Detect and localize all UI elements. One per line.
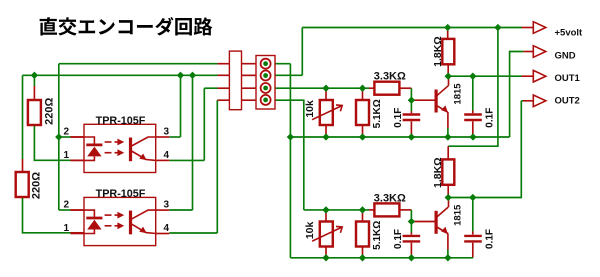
potentiometer 10k circuit2 <box>320 222 333 247</box>
wire 3.3K-1 to base node <box>399 87 411 89</box>
wire +5V vertical jog x=302 <box>301 28 303 76</box>
wire TPR2 pin4 to connector pin4 <box>169 232 217 234</box>
wire C2-1 tap <box>472 76 474 110</box>
svg-text:3: 3 <box>164 200 170 211</box>
wire LED-cathode net top y=63.7 <box>59 63 218 65</box>
wire Q2 emitter to GND rail2 <box>447 233 449 249</box>
wire base2 down to C1-2 <box>410 222 412 233</box>
capacitor 0.1F collector circuit2 <box>464 235 482 237</box>
U2 light arrows <box>105 214 112 216</box>
optocoupler U2 TPR-105F box <box>84 197 156 245</box>
svg-text:10k: 10k <box>304 100 316 118</box>
svg-text:OUT1: OUT1 <box>555 73 581 84</box>
wire +5V top rail <box>302 27 521 29</box>
wire TPR2 pin3 up to +5V net <box>169 209 192 211</box>
power flag +5volt <box>533 22 546 34</box>
svg-text:OUT2: OUT2 <box>555 95 580 106</box>
wire Q1 collector <box>448 76 450 86</box>
wire 1.8K-1 bottom to collector node <box>447 64 449 76</box>
wire 10k-1 stubs <box>325 88 327 100</box>
transistor Q2 1815 <box>435 211 438 234</box>
svg-text:220Ω: 220Ω <box>31 172 43 199</box>
wire +5V bus x=497.9 to 1.8K-2 <box>448 28 498 147</box>
svg-text:0.1F: 0.1F <box>393 229 404 249</box>
svg-text:1.8KΩ: 1.8KΩ <box>432 36 444 67</box>
svg-text:1: 1 <box>63 150 69 161</box>
potentiometer 10k circuit1 <box>320 100 333 125</box>
svg-text:5.1KΩ: 5.1KΩ <box>372 99 383 128</box>
connector pin stubs between header and socket <box>242 63 261 65</box>
svg-text:GND: GND <box>555 50 576 61</box>
svg-text:1815: 1815 <box>452 204 463 226</box>
transistor Q1 1815 <box>435 90 438 113</box>
wire R2 bottom to TPR2 pin1 <box>23 196 71 233</box>
wire 1.8K-2 top stub <box>447 146 449 160</box>
wire base node to Q1 base <box>411 99 434 101</box>
wire connector pin3 to circuit1 rail <box>271 87 369 89</box>
U1 pin stubs <box>71 136 85 138</box>
svg-text:2: 2 <box>63 127 69 138</box>
wire 10k-2 stubs <box>325 210 327 222</box>
wire circuit2 rail y=209.9 <box>304 209 369 211</box>
svg-text:3.3KΩ: 3.3KΩ <box>374 71 406 83</box>
wire TPR1 pin2 branch <box>59 136 71 138</box>
wire 5.1K-1 stubs <box>362 88 364 100</box>
wire OUT1 line <box>448 75 521 77</box>
wire TPR2 pin2 branch <box>59 209 71 211</box>
resistor 5.1KΩ circuit2 <box>356 222 369 247</box>
connector socket pins <box>261 59 271 69</box>
resistor 3.3KΩ circuit2 <box>374 203 399 216</box>
wire OUT2 line <box>448 101 521 198</box>
svg-text:+5volt: +5volt <box>555 28 584 39</box>
output flag OUT1 <box>533 70 546 82</box>
svg-text:TPR-105F: TPR-105F <box>96 188 146 200</box>
resistor 5.1KΩ circuit1 <box>356 100 369 125</box>
wire 1.8K-2 bottom to collector2 <box>447 184 449 198</box>
title text 直交エンコーダ回路 <box>40 17 213 36</box>
svg-text:0.1F: 0.1F <box>485 229 496 249</box>
svg-text:0.1F: 0.1F <box>485 108 496 128</box>
power flag GND <box>533 46 546 58</box>
U2 phototransistor <box>129 211 132 235</box>
wire +5V horizontal net y=75 <box>23 74 218 76</box>
svg-text:3: 3 <box>164 127 170 138</box>
resistor R2 220Ω <box>16 172 29 197</box>
wire LED-cathode vertical x=58.8 <box>58 64 60 210</box>
svg-text:4: 4 <box>164 223 170 234</box>
svg-text:220Ω: 220Ω <box>43 98 55 125</box>
wire connector pin1 to GND bus <box>271 63 291 65</box>
svg-text:0.1F: 0.1F <box>393 108 404 128</box>
svg-text:5.1KΩ: 5.1KΩ <box>372 221 383 250</box>
junction dots <box>31 72 38 79</box>
svg-text:1: 1 <box>63 223 69 234</box>
wire base2 to Q2 base <box>411 221 434 223</box>
capacitor 0.1F base circuit1 <box>403 113 421 115</box>
wire 5.1K-2 stubs <box>362 210 364 222</box>
svg-text:2: 2 <box>63 200 69 211</box>
wire 3.3K-2 to base2 node <box>399 209 411 211</box>
U2 LED <box>84 210 94 217</box>
wire 1.8K-1 top stub <box>447 28 449 39</box>
wire R2 top stub <box>22 159 24 173</box>
U1 phototransistor <box>129 138 132 162</box>
wire Q1 emitter to GND rail <box>447 112 449 128</box>
wire base node down to C1 and GND <box>410 100 412 111</box>
wire connector pin4 down to circuit2 rail <box>271 100 304 210</box>
wire C2-2 tap <box>472 198 474 232</box>
connector socket box <box>256 56 275 110</box>
U1 light arrows <box>105 141 112 143</box>
capacitor 0.1F base circuit2 <box>403 235 421 237</box>
wire R1 bottom to TPR1 pin1 <box>34 125 70 160</box>
resistor 1.8KΩ circuit2 <box>442 159 454 184</box>
capacitor 0.1F collector circuit1 <box>464 113 482 115</box>
svg-text:3.3KΩ: 3.3KΩ <box>374 192 406 204</box>
U1 LED <box>84 137 94 144</box>
wire Q2 collector <box>448 198 450 208</box>
connector white header SV1 <box>229 51 241 110</box>
wire 3.3K-1 left stub <box>369 87 375 89</box>
resistor R1 220Ω <box>28 100 41 125</box>
wire R1 top stub <box>33 75 35 86</box>
wire TPR1 pin3 up to +5V net <box>169 136 180 138</box>
wire circuit1 GND rail y=137 <box>290 136 509 138</box>
wire 3.3K-2 left stub <box>369 209 375 211</box>
svg-text:1.8KΩ: 1.8KΩ <box>432 157 444 188</box>
output flag OUT2 <box>533 95 546 107</box>
wire GND bus vertical x=290.4 <box>289 64 291 258</box>
wire left +5V drop to R2 <box>22 75 24 159</box>
U2 pin stubs <box>71 209 85 211</box>
svg-text:4: 4 <box>164 150 170 161</box>
wire GND from triangle <box>510 52 524 138</box>
svg-text:10k: 10k <box>304 221 316 239</box>
resistor 3.3KΩ circuit1 <box>374 82 399 95</box>
svg-text:TPR-105F: TPR-105F <box>96 115 146 127</box>
svg-text:1815: 1815 <box>452 83 463 105</box>
wire TPR1 pin4 to connector pin3 <box>169 159 204 161</box>
optocoupler U1 TPR-105F box <box>84 124 156 172</box>
resistor 1.8KΩ circuit1 <box>442 39 454 64</box>
wire circuit2 GND rail y=257.8 <box>290 257 473 259</box>
